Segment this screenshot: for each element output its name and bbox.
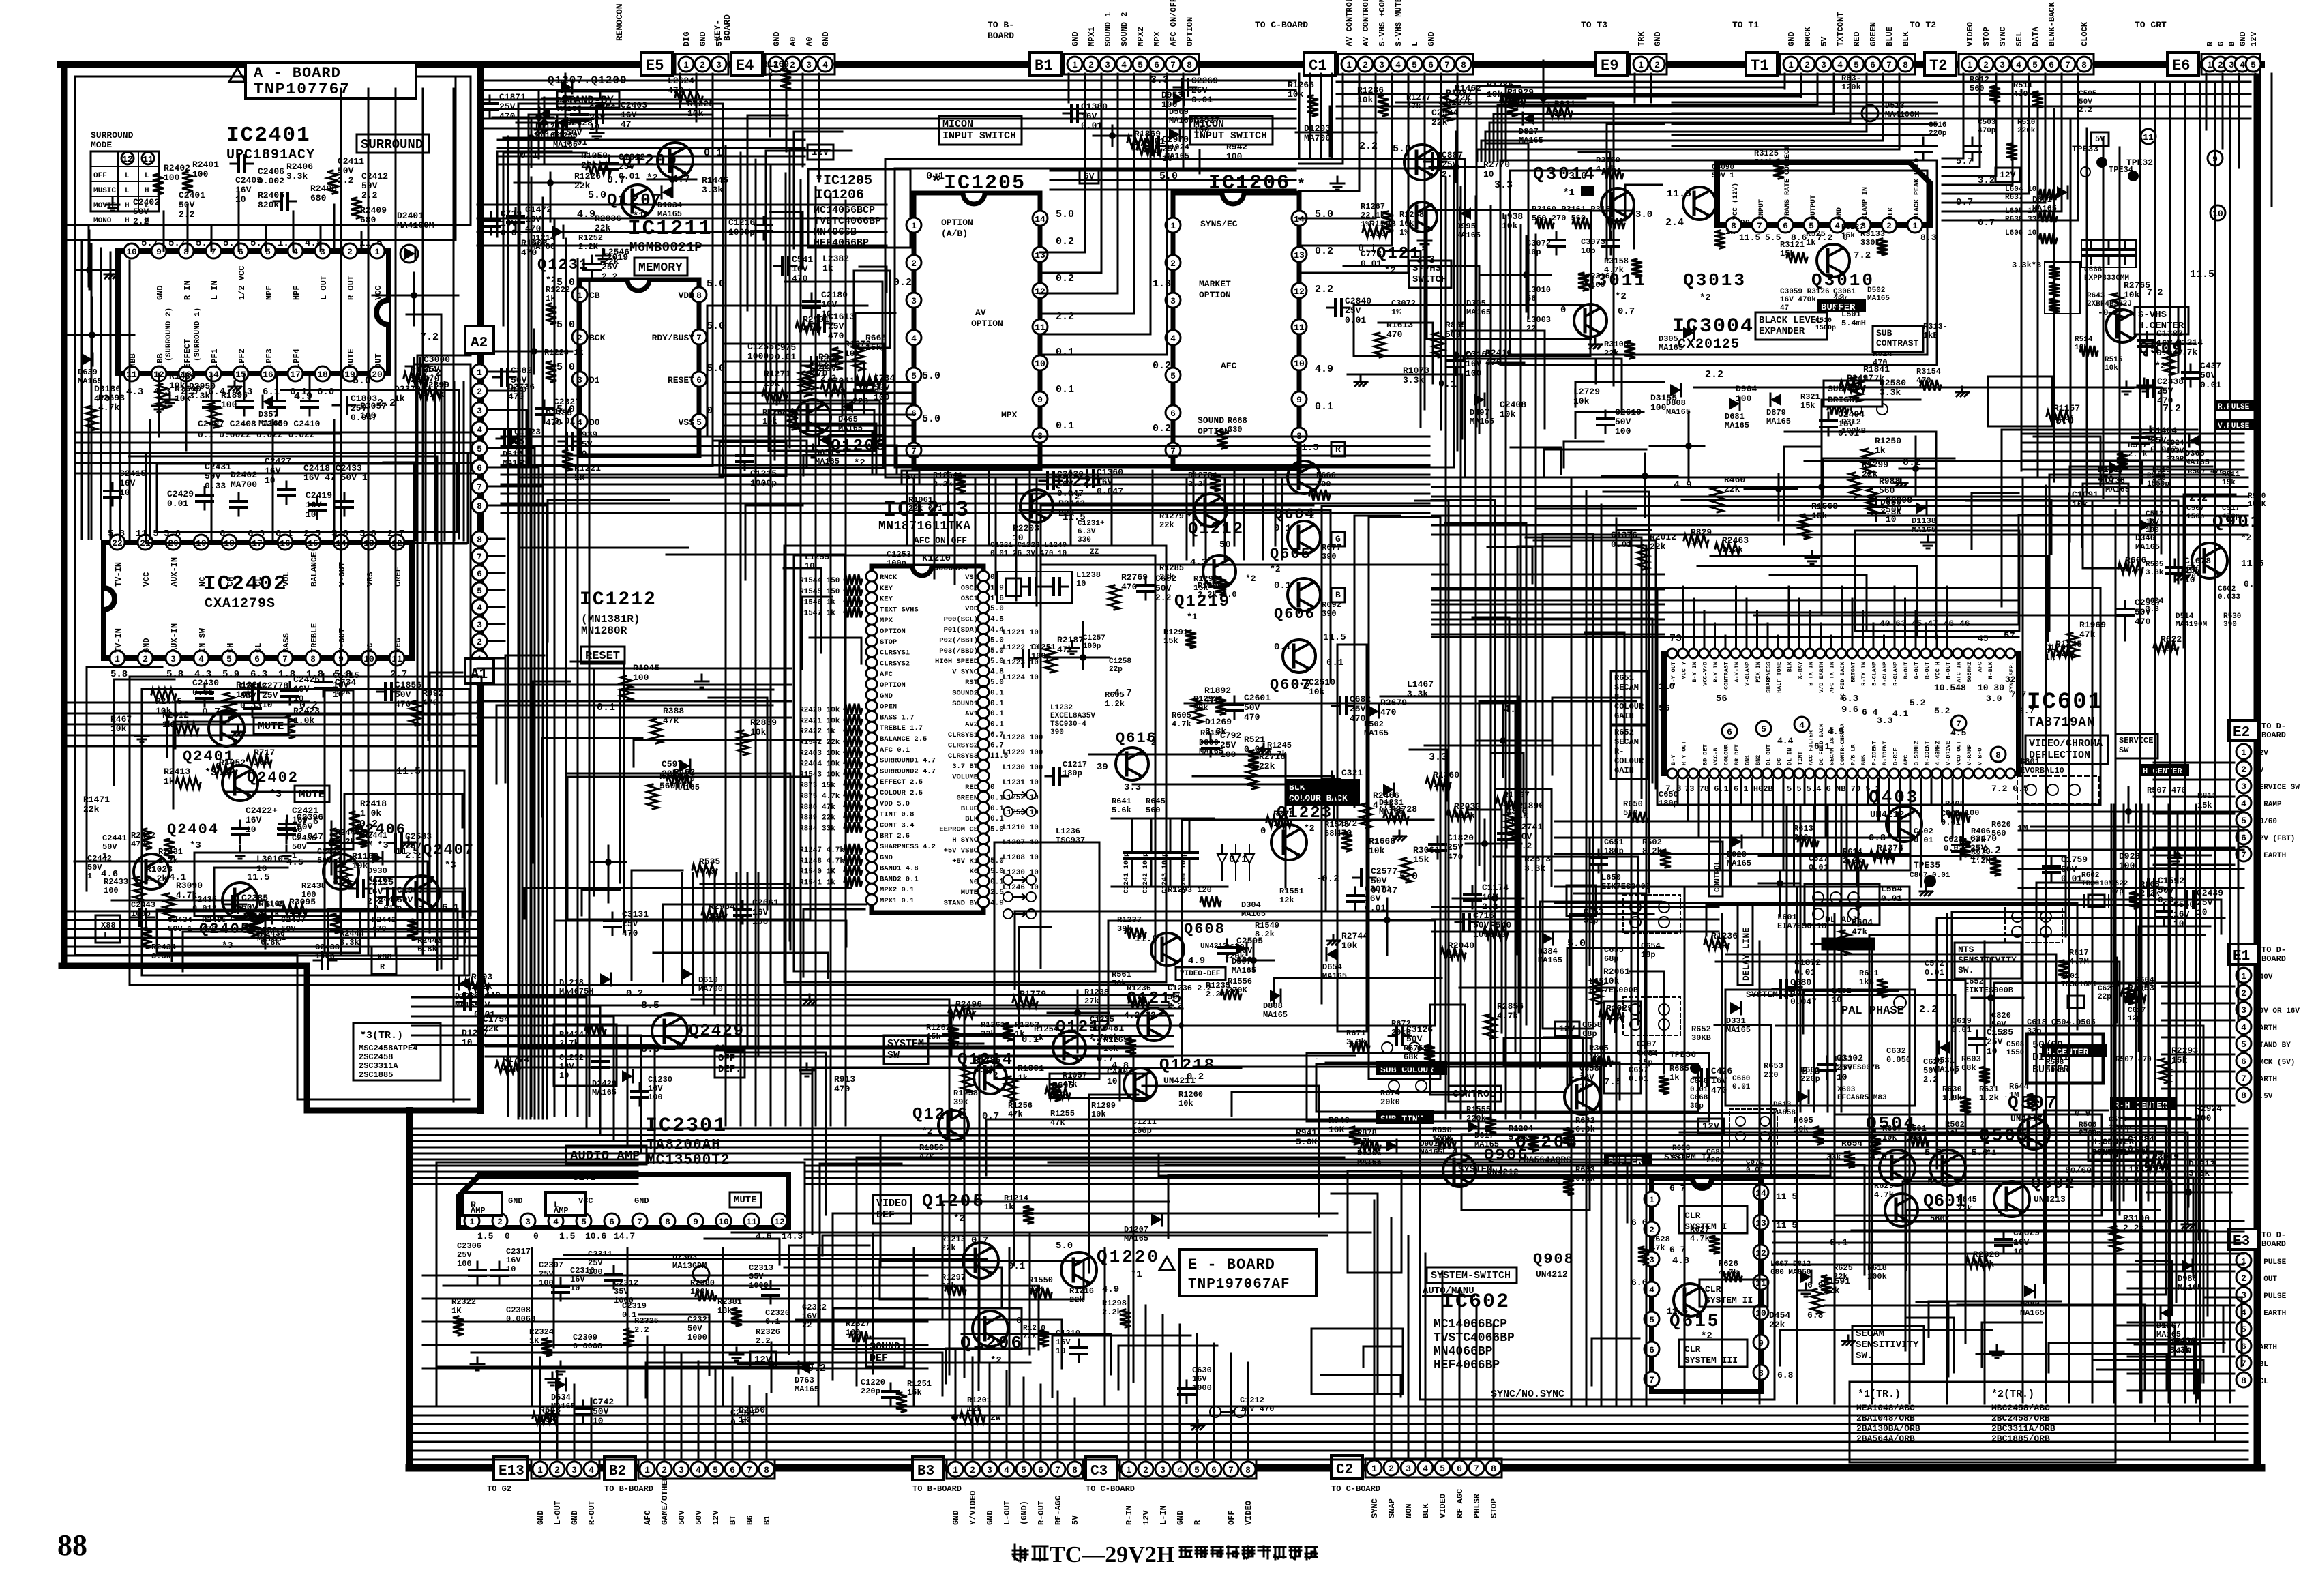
svg-text:10.548: 10.548	[1934, 683, 1966, 693]
svg-text:MA165: MA165	[257, 934, 282, 944]
svg-text:MA165: MA165	[1666, 407, 1691, 417]
svg-text:2.2K: 2.2K	[578, 242, 599, 252]
svg-text:0.2: 0.2	[1153, 423, 1171, 434]
svg-text:(GND): (GND)	[1020, 1501, 1029, 1525]
svg-text:560: 560	[1970, 84, 1985, 93]
svg-text:C2422+: C2422+	[246, 806, 278, 816]
svg-text:3: 3	[170, 654, 176, 664]
svg-text:C1567: C1567	[397, 885, 424, 896]
svg-text:0.7: 0.7	[982, 1111, 999, 1122]
svg-text:C1315: C1315	[333, 670, 359, 681]
svg-text:CLRSYS1: CLRSYS1	[948, 731, 978, 739]
svg-text:6 4: 6 4	[1862, 707, 1878, 718]
svg-text:R-OUT: R-OUT	[1037, 1501, 1046, 1525]
svg-text:C1091: C1091	[2072, 490, 2098, 500]
top right pulse labels	[2139, 764, 2189, 776]
svg-text:505MHZ: 505MHZ	[1966, 662, 1973, 683]
svg-text:C3061: C3061	[1833, 288, 1856, 296]
transistor Q507	[2012, 1117, 2066, 1151]
svg-text:R2443: R2443	[1058, 499, 1085, 509]
svg-text:MARKET: MARKET	[1199, 279, 1231, 289]
svg-text:CL: CL	[254, 643, 263, 653]
svg-text:L-OUT: L-OUT	[553, 1501, 563, 1525]
svg-text:D995: D995	[1456, 222, 1476, 231]
svg-text:R685: R685	[1669, 1064, 1689, 1074]
svg-text:1.5: 1.5	[559, 1231, 576, 1241]
svg-text:D756: D756	[257, 926, 277, 935]
svg-text:0.7: 0.7	[1618, 306, 1635, 317]
svg-text:16V: 16V	[1838, 419, 1854, 429]
svg-text:5V: 5V	[1820, 36, 1829, 46]
svg-text:0: 0	[505, 1231, 510, 1241]
svg-text:2: 2	[2241, 988, 2246, 999]
svg-text:47k: 47k	[1057, 645, 1073, 655]
svg-text:11: 11	[391, 654, 402, 664]
transistor Q1215	[1138, 1008, 1170, 1041]
svg-text:0.047: 0.047	[1097, 486, 1123, 497]
svg-text:MA165: MA165	[1165, 151, 1189, 161]
svg-text:C2898: C2898	[1886, 495, 1912, 505]
svg-text:L OUT: L OUT	[319, 276, 329, 300]
capacitor bank C1241-C1244	[1112, 818, 1228, 893]
svg-text:X88: X88	[377, 952, 392, 962]
svg-text:MEMORY: MEMORY	[638, 261, 683, 275]
video chroma IC601	[1664, 649, 2019, 778]
svg-text:12: 12	[774, 1217, 785, 1227]
wire texture round2	[341, 89, 2196, 1402]
svg-text:C2937: C2937	[2135, 597, 2161, 608]
svg-text:470: 470	[1350, 713, 1366, 724]
svg-text:4: 4	[911, 334, 917, 344]
svg-text:5: 5	[2032, 60, 2038, 70]
svg-text:BLACK LEVEL: BLACK LEVEL	[1759, 315, 1822, 326]
svg-text:100: 100	[1226, 151, 1243, 162]
svg-text:TREBLE: TREBLE	[310, 623, 319, 653]
svg-text:22k: 22k	[709, 911, 725, 921]
svg-text:470: 470	[94, 394, 110, 404]
svg-text:MA165: MA165	[1263, 1010, 1288, 1020]
svg-text:D357: D357	[258, 410, 278, 419]
svg-text:L: L	[104, 931, 108, 941]
svg-text:D1267: D1267	[2156, 1321, 2181, 1331]
connector B3	[912, 1457, 944, 1480]
svg-text:MA165: MA165	[1867, 295, 1890, 303]
svg-text:C1856: C1856	[395, 680, 421, 690]
svg-text:470: 470	[1970, 853, 1987, 863]
svg-text:4: 4	[822, 60, 828, 70]
svg-text:0.047: 0.047	[1371, 885, 1397, 896]
svg-text:C2628: C2628	[566, 118, 593, 128]
svg-text:4.7k: 4.7k	[1863, 374, 1884, 384]
svg-text:50V: 50V	[2079, 98, 2092, 106]
svg-text:BLK: BLK	[1888, 207, 1895, 220]
svg-text:R1248 4.7k: R1248 4.7k	[799, 857, 844, 866]
svg-text:SOUND: SOUND	[870, 1341, 900, 1353]
svg-text:470: 470	[1447, 852, 1464, 862]
label SOUND DEF	[866, 1338, 904, 1367]
svg-text:3: 3	[1379, 60, 1384, 70]
svg-text:V/D EARTH: V/D EARTH	[1818, 662, 1825, 693]
svg-text:3.3k: 3.3k	[1880, 387, 1901, 398]
vertical label CONTROL	[1709, 842, 1723, 896]
svg-text:MPX: MPX	[1153, 31, 1162, 46]
svg-text:100: 100	[2119, 861, 2135, 871]
svg-text:88: 88	[57, 1528, 87, 1562]
svg-text:12V: 12V	[711, 1510, 721, 1525]
svg-text:1k: 1k	[762, 69, 773, 79]
svg-text:10: 10	[1837, 1072, 1847, 1082]
svg-text:MA165: MA165	[815, 457, 840, 467]
svg-text:GND: GND	[772, 31, 782, 46]
svg-text:AMP: AMP	[554, 1206, 569, 1215]
svg-text:R2839: R2839	[750, 718, 777, 728]
svg-text:SOUND2: SOUND2	[952, 689, 978, 697]
svg-text:B-CLAMP: B-CLAMP	[1871, 662, 1878, 686]
svg-text:L2382: L2382	[822, 254, 849, 264]
svg-text:10: 10	[1294, 359, 1305, 369]
svg-text:D497: D497	[1470, 408, 1489, 417]
svg-text:TO T3: TO T3	[1581, 20, 1607, 30]
transistor Q1211	[1404, 145, 1440, 180]
svg-text:1550p: 1550p	[2006, 1049, 2029, 1057]
svg-text:10: 10	[1056, 1346, 1065, 1356]
svg-text:2: 2	[970, 1465, 975, 1475]
svg-text:15k: 15k	[2171, 1055, 2188, 1065]
svg-text:10: 10	[1832, 995, 1841, 1005]
svg-text:AV CONTROL: AV CONTROL	[1361, 0, 1371, 46]
svg-text:2SC1885: 2SC1885	[359, 1070, 393, 1080]
svg-text:MA165: MA165	[2135, 542, 2160, 552]
svg-text:5.0: 5.0	[1802, 1066, 1820, 1078]
svg-text:35V: 35V	[749, 1272, 764, 1282]
svg-text:5.0: 5.0	[588, 190, 606, 201]
svg-text:4: 4	[1649, 1285, 1654, 1295]
svg-text:0.01: 0.01	[1191, 95, 1213, 105]
svg-text:6: 6	[254, 654, 260, 664]
svg-text:L1236: L1236	[1056, 827, 1080, 836]
svg-text:1: 1	[1072, 60, 1078, 70]
wire bus IC601 bottom fan	[1555, 778, 1963, 903]
svg-text:C437: C437	[2200, 361, 2221, 371]
svg-text:3: 3	[525, 1217, 531, 1227]
svg-text:100: 100	[752, 917, 769, 927]
svg-text:0.01: 0.01	[619, 171, 640, 181]
IC1213 right values	[990, 574, 1043, 907]
svg-text:7.2: 7.2	[2163, 403, 2181, 415]
svg-text:V-OUT: V-OUT	[338, 628, 347, 653]
svg-text:0.6: 0.6	[2244, 579, 2260, 589]
svg-text:TO B-BOARD: TO B-BOARD	[604, 1484, 653, 1494]
svg-text:13: 13	[1755, 1218, 1766, 1228]
svg-text:N-IDENT: N-IDENT	[1924, 741, 1931, 765]
svg-text:5: 5	[911, 371, 917, 381]
svg-text:COLOUR: COLOUR	[1614, 756, 1644, 766]
svg-text:10k: 10k	[539, 1415, 556, 1425]
svg-text:OSC1: OSC1	[961, 595, 978, 603]
svg-text:SW: SW	[2119, 745, 2129, 755]
svg-text:8: 8	[1245, 1465, 1251, 1475]
wire bus band 1440-1560 left	[65, 873, 1173, 1056]
svg-text:CH: CH	[226, 643, 235, 653]
box R2424	[554, 1024, 617, 1086]
svg-text:C1613: C1613	[828, 312, 855, 322]
svg-text:0: 0	[220, 529, 225, 540]
svg-text:2: 2	[1805, 60, 1810, 70]
svg-text:0.1: 0.1	[1315, 401, 1333, 413]
svg-text:TO CRT: TO CRT	[2135, 20, 2167, 30]
svg-text:R3057: R3057	[360, 401, 387, 411]
svg-text:0.01: 0.01	[1838, 428, 1859, 439]
svg-text:OPEN: OPEN	[880, 703, 897, 711]
svg-text:0.1: 0.1	[1274, 642, 1291, 653]
system switch IC602	[1427, 1267, 1517, 1283]
svg-text:R2030: R2030	[1454, 801, 1481, 812]
svg-text:R388: R388	[663, 706, 684, 716]
svg-text:MA165: MA165	[1726, 1025, 1751, 1035]
svg-text:R2828: R2828	[1973, 1250, 2000, 1260]
svg-text:OUT: OUT	[374, 353, 383, 368]
svg-text:100: 100	[633, 673, 649, 683]
label BLACK LEVEL EXPANDER	[1755, 312, 1827, 340]
svg-text:2: 2	[477, 387, 482, 397]
svg-text:VCO OUT: VCO OUT	[1956, 741, 1963, 765]
svg-text:50V: 50V	[694, 1510, 704, 1525]
svg-text:C1232: C1232	[559, 1053, 584, 1063]
svg-text:8: 8	[764, 1465, 769, 1475]
svg-text:22k: 22k	[674, 777, 690, 787]
svg-text:*1: *1	[1187, 612, 1198, 622]
svg-text:C622: C622	[2110, 880, 2128, 888]
svg-text:22k: 22k	[1431, 117, 1448, 128]
connector A1	[472, 531, 487, 546]
svg-text:3: 3	[477, 406, 482, 416]
svg-text:CL: CL	[254, 577, 263, 587]
svg-text:8: 8	[1995, 750, 2001, 760]
svg-text:5.0: 5.0	[1399, 871, 1418, 883]
svg-text:Q3011: Q3011	[1584, 270, 1647, 291]
svg-text:R1896: R1896	[221, 390, 248, 400]
svg-text:AMP: AMP	[471, 1206, 486, 1215]
svg-text:Q908: Q908	[1533, 1251, 1575, 1268]
wire bus top connectors down	[680, 74, 2272, 355]
svg-text:BOARD: BOARD	[2261, 1239, 2286, 1249]
svg-text:R644: R644	[2009, 1082, 2029, 1091]
svg-text:2.2: 2.2	[1705, 369, 1723, 381]
svg-text:110: 110	[1659, 681, 1675, 692]
svg-text:0.1: 0.1	[597, 702, 615, 713]
svg-text:1: 1	[1371, 1464, 1377, 1474]
svg-text:4.1: 4.1	[1892, 709, 1909, 719]
svg-text:D346: D346	[2135, 533, 2155, 543]
svg-text:MA165: MA165	[551, 1402, 576, 1411]
svg-text:4: 4	[2241, 799, 2246, 809]
svg-text:6: 6	[1170, 409, 1176, 419]
svg-text:50V: 50V	[1155, 583, 1172, 593]
svg-text:D2185: D2185	[546, 408, 572, 418]
transistor Q1212	[1194, 494, 1227, 527]
svg-text:1k: 1k	[822, 263, 833, 274]
svg-text:C655: C655	[1604, 945, 1624, 955]
svg-text:12V: 12V	[2255, 750, 2268, 758]
svg-text:140V: 140V	[2255, 973, 2273, 981]
svg-text:SERVICE: SERVICE	[2119, 736, 2153, 745]
svg-text:1.5: 1.5	[477, 1231, 494, 1241]
svg-text:20k0: 20k0	[1380, 1097, 1400, 1107]
label OFF DEF	[715, 1050, 745, 1078]
svg-text:MA165: MA165	[1470, 417, 1494, 426]
svg-text:560: 560	[1879, 486, 1895, 496]
svg-text:C2402: C2402	[133, 197, 160, 207]
svg-text:C867 0.01: C867 0.01	[1910, 872, 1950, 880]
svg-text:22p: 22p	[1109, 666, 1123, 674]
svg-text:50V: 50V	[511, 375, 527, 385]
svg-text:18k: 18k	[717, 1306, 732, 1316]
svg-text:560: 560	[1445, 329, 1461, 340]
svg-text:STAND BY: STAND BY	[2255, 1041, 2291, 1050]
svg-text:C1872: C1872	[1794, 958, 1821, 968]
svg-text:L1229 100: L1229 100	[1003, 749, 1043, 757]
svg-text:1kB: 1kB	[1923, 331, 1938, 340]
svg-text:3: 3	[716, 60, 722, 70]
svg-text:D3186: D3186	[94, 384, 121, 394]
svg-text:10k: 10k	[1020, 999, 1036, 1009]
svg-text:R1157: R1157	[2053, 403, 2080, 413]
svg-text:4.7k: 4.7k	[1874, 1190, 1894, 1200]
svg-text:C602: C602	[1914, 827, 1933, 836]
svg-text:100: 100	[828, 385, 844, 396]
svg-text:4: 4	[1121, 60, 1127, 70]
svg-text:4.9: 4.9	[1188, 956, 1205, 966]
svg-text:RED: RED	[1852, 31, 1862, 46]
svg-text:16: 16	[263, 370, 273, 380]
svg-text:1: 1	[115, 654, 120, 664]
svg-text:0.01: 0.01	[1361, 258, 1382, 269]
label CONTROL	[1449, 1086, 1501, 1102]
svg-text:C2412: C2412	[361, 171, 388, 181]
svg-text:10k: 10k	[2105, 364, 2118, 372]
svg-text:10p: 10p	[1581, 246, 1596, 256]
svg-text:100: 100	[192, 169, 209, 179]
svg-text:C2319: C2319	[622, 1301, 647, 1311]
svg-text:Q3014: Q3014	[1533, 164, 1597, 184]
svg-text:R-TX IN: R-TX IN	[1860, 662, 1867, 686]
svg-text:3: 3	[911, 296, 917, 306]
svg-text:TO T2: TO T2	[1910, 20, 1936, 30]
svg-text:VOL: VOL	[282, 572, 291, 587]
svg-text:AV: AV	[975, 308, 986, 318]
svg-text:30V OR 16V: 30V OR 16V	[2255, 1007, 2300, 1016]
svg-text:10: 10	[593, 1416, 604, 1426]
svg-text:1k: 1k	[1806, 238, 1815, 248]
svg-text:SYSTEM III: SYSTEM III	[1684, 1355, 1738, 1365]
svg-text:SOUND 1: SOUND 1	[1103, 12, 1113, 46]
svg-text:V-OUT: V-OUT	[338, 562, 347, 587]
svg-text:6.3V: 6.3V	[1078, 528, 1096, 536]
svg-text:10k: 10k	[1369, 846, 1385, 856]
svg-text:D1218: D1218	[559, 978, 584, 988]
svg-text:D986: D986	[2178, 1274, 2197, 1284]
svg-text:10k: 10k	[1603, 976, 1620, 986]
svg-text:11: 11	[126, 370, 137, 380]
svg-text:BLUE: BLUE	[961, 805, 978, 813]
svg-text:6 6: 6 6	[1631, 1217, 1648, 1228]
svg-text:L1467: L1467	[1407, 679, 1434, 690]
svg-text:C2269: C2269	[1191, 76, 1218, 86]
svg-text:MPX: MPX	[1001, 410, 1018, 420]
label MICON INPUT SWITCH 2	[1190, 116, 1273, 145]
label SERVICE SW	[2115, 734, 2158, 758]
svg-text:D465: D465	[838, 415, 858, 424]
svg-text:C2922: C2922	[730, 1408, 757, 1418]
svg-text:470: 470	[1485, 357, 1502, 368]
transistor Q1223	[1271, 825, 1307, 860]
label 12V	[750, 1352, 776, 1367]
svg-text:MPX: MPX	[880, 617, 893, 625]
svg-text:9: 9	[1037, 395, 1043, 405]
label VIDEO DEF	[873, 1195, 911, 1224]
svg-text:SYSTEM II: SYSTEM II	[1705, 1295, 1753, 1305]
svg-text:R2403 10k: R2403 10k	[799, 750, 840, 758]
svg-text:VDD: VDD	[679, 291, 695, 301]
svg-text:R2401: R2401	[192, 160, 219, 170]
svg-text:MA165: MA165	[1912, 525, 1936, 535]
svg-text:DIG: DIG	[682, 31, 692, 46]
svg-text:C1380: C1380	[1081, 102, 1108, 112]
svg-text:EVORBAL10: EVORBAL10	[2020, 766, 2064, 775]
svg-text:OPTION: OPTION	[1199, 290, 1231, 300]
svg-text:AFC ON OFF: AFC ON OFF	[914, 535, 967, 546]
svg-text:AFC ON/OFF: AFC ON/OFF	[1169, 0, 1178, 46]
svg-text:2: 2	[790, 60, 795, 70]
svg-text:C602: C602	[2218, 585, 2236, 593]
svg-text:E2: E2	[2233, 725, 2250, 741]
svg-text:AUX-IN: AUX-IN	[170, 557, 179, 587]
svg-text:D2527: D2527	[1193, 115, 1220, 125]
svg-text:2: 2	[1649, 1225, 1654, 1235]
svg-text:AFC: AFC	[643, 1510, 653, 1525]
svg-text:GND: GND	[1787, 31, 1796, 46]
svg-text:MA165: MA165	[1766, 417, 1791, 426]
svg-text:5: 5	[1138, 60, 1143, 70]
svg-text:L1232: L1232	[1050, 704, 1073, 712]
svg-text:R665: R665	[865, 333, 887, 343]
svg-text:5: 5	[2241, 1039, 2246, 1050]
svg-text:R988: R988	[1879, 476, 1900, 486]
svg-text:*3(TR.): *3(TR.)	[360, 1030, 403, 1041]
svg-text:TRANS RATE CORRECT: TRANS RATE CORRECT	[1784, 146, 1792, 220]
svg-text:10: 10	[262, 700, 273, 710]
svg-text:6: 6	[2241, 1056, 2246, 1067]
svg-text:GND: GND	[821, 31, 831, 46]
svg-text:3.3: 3.3	[1416, 254, 1435, 266]
svg-text:BOARD: BOARD	[722, 14, 732, 41]
svg-text:R1471: R1471	[83, 795, 110, 805]
svg-text:C2309: C2309	[573, 1333, 597, 1342]
svg-text:KEY: KEY	[880, 595, 893, 604]
svg-text:A0: A0	[805, 37, 814, 46]
label STAND-BY	[557, 91, 619, 108]
svg-text:12: 12	[1755, 1248, 1766, 1258]
svg-text:C541: C541	[792, 254, 813, 265]
svg-text:2.2: 2.2	[1315, 284, 1333, 295]
svg-text:3: 3	[1821, 60, 1826, 70]
svg-text:C2510: C2510	[1309, 677, 1335, 688]
svg-text:R2187: R2187	[1057, 635, 1084, 645]
svg-text:OPTION: OPTION	[1198, 426, 1230, 437]
svg-text:220k: 220k	[2017, 127, 2036, 135]
svg-text:8: 8	[2241, 1091, 2246, 1101]
IC1213 left resistors	[799, 574, 862, 887]
